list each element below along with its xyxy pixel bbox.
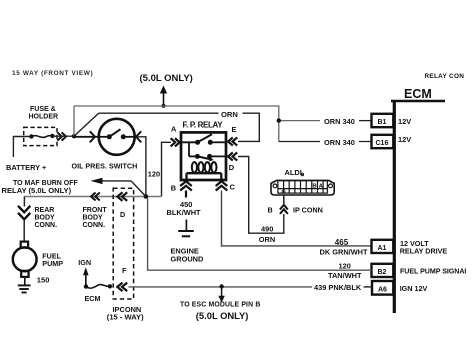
- svg-text:BLK/WHT: BLK/WHT: [167, 208, 202, 217]
- ECM connector boundary: [391, 100, 445, 313]
- node main feed junction: [72, 134, 76, 138]
- svg-text:F: F: [122, 266, 127, 275]
- ECM pin A1: [372, 240, 394, 253]
- arrow out of oil pressure switch: [136, 131, 141, 142]
- arrow IGN feed: [83, 267, 89, 286]
- svg-text:IGN: IGN: [78, 258, 91, 267]
- svg-text:OIL PRES. SWITCH: OIL PRES. SWITCH: [72, 161, 138, 170]
- engine ground: [178, 220, 194, 237]
- relay box: [181, 132, 226, 180]
- fuse element: [29, 134, 54, 139]
- node pump feed junction: [144, 194, 149, 199]
- IP conn B chevron: [280, 205, 288, 214]
- svg-text:B: B: [268, 205, 273, 214]
- svg-text:BODY: BODY: [83, 214, 104, 221]
- arrow into oil pressure switch: [74, 131, 98, 142]
- ECM pin A6: [372, 281, 393, 295]
- mounting ear right: [329, 184, 333, 188]
- pump motor body: [13, 247, 37, 271]
- svg-text:15 WAY (FRONT VIEW): 15 WAY (FRONT VIEW): [12, 70, 93, 77]
- svg-text:REAR: REAR: [35, 207, 55, 214]
- wire ign squiggle: [86, 285, 110, 289]
- wire relay D to IP conn B (490 ORN): [238, 157, 284, 234]
- svg-text:C: C: [230, 182, 236, 191]
- svg-text:BATTERY +: BATTERY +: [6, 163, 47, 172]
- svg-text:HOLDER: HOLDER: [29, 114, 59, 121]
- svg-text:D: D: [229, 163, 235, 172]
- wire down to fuel pump: [23, 197, 25, 242]
- svg-text:ECM: ECM: [85, 294, 101, 303]
- connector chevron after fuse: [57, 132, 66, 140]
- svg-text:DK GRN/WHT: DK GRN/WHT: [320, 247, 369, 256]
- svg-text:RELAY (5.0L ONLY): RELAY (5.0L ONLY): [2, 186, 72, 195]
- node ESC branch dot: [219, 284, 223, 288]
- wire oil switch output down to junction: [136, 137, 146, 197]
- svg-text:(5.0L ONLY): (5.0L ONLY): [140, 73, 193, 84]
- wire junction up to top feed: [73, 106, 75, 136]
- svg-text:FUEL PUMP SIGNAI: FUEL PUMP SIGNAI: [400, 268, 466, 276]
- terminal E chevron: [228, 137, 237, 145]
- relay coil L1: [192, 162, 217, 172]
- svg-text:ORN 340: ORN 340: [324, 117, 355, 126]
- ground (fuel pump): [18, 285, 31, 292]
- node squiggle end dot: [108, 284, 112, 288]
- svg-text:RELAY CON: RELAY CON: [425, 73, 465, 80]
- svg-text:D: D: [120, 210, 125, 219]
- svg-text:IP CONN: IP CONN: [293, 206, 323, 215]
- wire pump to ground: [24, 277, 26, 285]
- relay contact common: [181, 142, 198, 156]
- svg-text:465: 465: [335, 238, 349, 247]
- wire relay C to ECM A1 (465 DK GRN/WHT): [222, 191, 372, 246]
- junction dot on top feed wire: [161, 104, 165, 108]
- fuse F and holder (dashed box): [24, 127, 57, 145]
- svg-text:ORN 340: ORN 340: [324, 138, 355, 147]
- IP conn dashed box (15-way): [113, 188, 133, 299]
- arrow to 5.0L only note: [160, 86, 167, 106]
- svg-text:G: G: [282, 189, 287, 195]
- relay contact 2 (to D): [189, 155, 197, 157]
- svg-text:12V: 12V: [398, 135, 411, 144]
- node B1/C16 branch dot: [277, 118, 281, 122]
- svg-text:A1: A1: [378, 245, 387, 252]
- svg-text:(5.0L ONLY): (5.0L ONLY): [196, 310, 249, 321]
- svg-text:CONN.: CONN.: [35, 222, 58, 229]
- node ign dot: [84, 284, 88, 288]
- svg-text:E: E: [232, 125, 237, 134]
- F.P. relay U1: [171, 121, 238, 198]
- relay coil base: [187, 173, 222, 180]
- svg-text:RELAY DRIVE: RELAY DRIVE: [400, 246, 448, 255]
- svg-text:TAN/WHT: TAN/WHT: [328, 271, 362, 280]
- svg-text:ORN: ORN: [221, 110, 238, 119]
- wire top feed to ECM B1/C16 branch: [74, 106, 279, 142]
- svg-text:ORN: ORN: [259, 235, 275, 244]
- svg-text:PUMP: PUMP: [42, 259, 63, 268]
- wire battery feed: [13, 137, 31, 158]
- fuel pump M1: [13, 242, 63, 285]
- wire A6 ign feed (439 PNK/BLK): [129, 286, 373, 288]
- pin grid: [278, 181, 327, 194]
- svg-text:ECM: ECM: [404, 87, 432, 101]
- ECM pin B2: [372, 264, 394, 277]
- connector shell: [271, 180, 334, 195]
- pump bottom terminal: [21, 271, 28, 277]
- rear body conn chevron: [18, 206, 30, 220]
- wire fuel pump feed (main run): [24, 196, 161, 198]
- wire fuse to junction: [52, 135, 74, 137]
- ECM pin C16: [372, 135, 394, 148]
- svg-text:F. P. RELAY: F. P. RELAY: [183, 121, 224, 130]
- svg-text:490: 490: [261, 224, 273, 233]
- svg-text:12V: 12V: [398, 117, 411, 126]
- svg-text:TO ESC MODULE PIN B: TO ESC MODULE PIN B: [180, 302, 260, 309]
- svg-text:120: 120: [339, 261, 351, 270]
- svg-text:FUSE &: FUSE &: [30, 106, 56, 113]
- svg-text:C16: C16: [376, 140, 389, 147]
- svg-text:120: 120: [148, 170, 160, 179]
- svg-text:B1: B1: [378, 119, 387, 126]
- svg-text:B: B: [171, 183, 176, 192]
- wire relay B to engine ground: [185, 191, 187, 198]
- wire relay terminal A to junction: [162, 142, 172, 196]
- ALDL connector: [271, 168, 334, 195]
- svg-text:A: A: [171, 125, 177, 134]
- relay contact 1 (to E): [195, 140, 200, 145]
- terminal A chevron: [171, 138, 180, 146]
- svg-text:B2: B2: [378, 269, 387, 276]
- wire B2 fuel pump signal (120 TAN/WHT): [148, 199, 372, 271]
- svg-text:CONN.: CONN.: [83, 222, 106, 229]
- svg-text:B: B: [313, 184, 317, 190]
- wire ORN to relay terminal E: [74, 113, 259, 141]
- svg-text:BODY: BODY: [35, 214, 56, 221]
- terminal D chevron: [228, 152, 237, 160]
- arrow to ESC module: [218, 287, 224, 303]
- ECM pin B1: [372, 114, 394, 127]
- wire to MAF burn off relay: [97, 181, 146, 197]
- svg-text:A6: A6: [378, 286, 387, 293]
- svg-text:FRONT: FRONT: [83, 207, 108, 214]
- wire ORN 340 to C16: [279, 141, 371, 143]
- wire ORN 340 to B1: [279, 120, 371, 122]
- mounting ear left: [273, 184, 277, 188]
- svg-text:GROUND: GROUND: [171, 254, 205, 263]
- terminal C chevron: [216, 181, 228, 190]
- oil pressure switch: [99, 119, 135, 155]
- front body conn chevron: [91, 193, 100, 201]
- svg-text:IGN 12V: IGN 12V: [400, 284, 428, 293]
- terminal F chevron (ip conn): [117, 283, 127, 292]
- terminal D chevron (ip conn): [117, 192, 127, 201]
- svg-text:(15 - WAY): (15 - WAY): [107, 313, 144, 322]
- svg-text:150: 150: [37, 275, 50, 284]
- wire ALDL G to chevron: [283, 195, 285, 206]
- svg-text:439 PNK/BLK: 439 PNK/BLK: [314, 283, 362, 292]
- pump top terminal: [21, 242, 28, 248]
- terminal B chevron: [180, 181, 192, 197]
